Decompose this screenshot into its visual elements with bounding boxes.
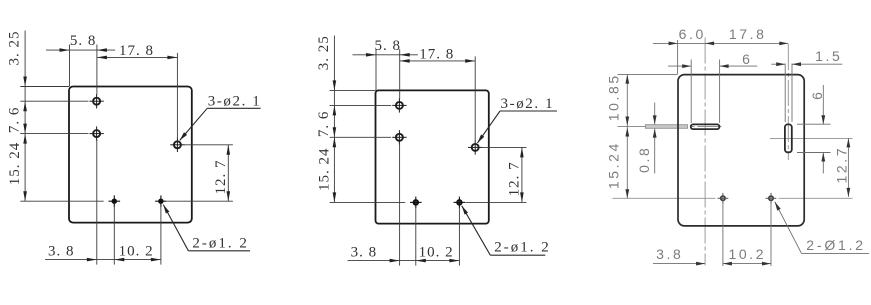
panel 2 (PCB layout bottom view, variant) — [316, 35, 557, 265]
panel2 extension line hole3-column-top — [474, 56, 476, 140]
panel1 extension line dot2-column — [160, 206, 162, 265]
panel2 extension line rect-top-left — [330, 89, 376, 91]
panel1 extension line hole3-row-right — [184, 144, 233, 146]
panel2 left arrows — [333, 80, 337, 90]
svg-text:15. 24: 15. 24 — [7, 142, 23, 186]
panel3 dimension 6 (slot2 height) line — [822, 85, 824, 124]
panel2 hole 1 (coil pin) — [396, 102, 403, 109]
panel3 slot 1 (horizontal pin slot) — [691, 124, 720, 129]
panel1 extension line hole3-column-top — [176, 53, 178, 138]
panel3 dimension 6.0/17.8 line — [653, 42, 788, 44]
panel2 dimension 12.7 line and arrows — [521, 147, 523, 202]
panel3 slot 2 (vertical pin slot) — [785, 124, 792, 152]
panel1 dimension 12.7 line and arrows — [227, 145, 229, 201]
panel3 extension line dot1-column — [722, 203, 724, 266]
panel2 extension line rect-left-top — [375, 49, 377, 90]
svg-text:15.24: 15.24 — [606, 141, 622, 189]
panel2 extension line hole-column-bottom — [399, 143, 401, 265]
svg-text:5. 8: 5. 8 — [375, 38, 402, 54]
panel1 extension line rect-top-left — [20, 86, 69, 88]
panel1 dimension line segment 3.8-to-10.2 — [97, 259, 115, 261]
svg-text:10.2: 10.2 — [728, 246, 766, 262]
svg-text:2-ø1. 2: 2-ø1. 2 — [192, 235, 249, 251]
panel3 extension line dot2-column — [770, 203, 772, 266]
panel1 pad dot 1 — [112, 199, 117, 204]
svg-text:5. 8: 5. 8 — [70, 33, 97, 49]
panel3 body outline — [678, 75, 804, 226]
panel2 extension line hole-column-top — [399, 49, 401, 99]
panel1 extension line hole-column-top — [96, 45, 98, 95]
panel3 extension line slot2-bottom-right — [797, 152, 831, 154]
svg-text:15. 24: 15. 24 — [317, 148, 333, 192]
svg-text:3.8: 3.8 — [656, 246, 683, 262]
panel1 dimension 17.8 line and arrows — [97, 56, 177, 58]
panel2 dimension 10.2 line and arrows — [416, 260, 460, 262]
panel3 extension line slot2-top-right — [797, 123, 831, 125]
panel2 dimension line segment 3.8-to-10.2 — [400, 260, 416, 262]
panel2 extension line hole2-row — [330, 136, 392, 138]
panel3 pad dot 2 — [769, 196, 773, 200]
svg-text:17. 8: 17. 8 — [419, 46, 454, 62]
panel3 extension line slot2-left-edge — [784, 64, 786, 123]
panel3 extension line slot1-right-edge — [719, 60, 721, 123]
svg-text:12. 7: 12. 7 — [506, 161, 522, 196]
panel2 dimension 17.8 line and arrows — [400, 60, 476, 62]
panel1 leader 3-o2.1 — [207, 107, 260, 109]
panel2 extension line hole3-row-right — [482, 146, 527, 148]
panel1 left arrows — [23, 77, 27, 87]
panel3 dimension 12.7 line and arrows — [847, 138, 849, 197]
panel2 dimension 5.8 line and arrows — [353, 54, 400, 56]
panel3 extension line slot2-right-edge — [791, 64, 793, 123]
panel1 extension line hole2-row — [20, 133, 88, 135]
panel2 leader 3-o2.1 — [500, 110, 557, 112]
panel2 extension line dots-row-left — [330, 201, 406, 203]
panel1 hole 1 (coil pin) — [93, 98, 100, 105]
svg-text:3. 25: 3. 25 — [7, 31, 23, 66]
panel3 centerline slot2 horizontal / 12.7 top extension — [770, 137, 853, 139]
svg-text:10. 2: 10. 2 — [119, 244, 154, 260]
svg-text:6.0: 6.0 — [679, 26, 706, 42]
svg-text:12.7: 12.7 — [833, 146, 849, 184]
panel2 hole 2 (coil pin) — [396, 134, 403, 141]
panel1 extension line dots-row-left — [20, 200, 103, 202]
panel1 extension line dot1-column — [113, 206, 115, 265]
panel3 dots-row centerline right — [779, 197, 853, 199]
svg-text:6: 6 — [809, 90, 825, 100]
panel2 leader 2-o1.2 — [490, 254, 545, 256]
panel3 left dimension line 10.85/15.24 — [626, 75, 628, 199]
svg-text:3-ø2. 1: 3-ø2. 1 — [501, 96, 555, 112]
panel3 extension line rect-top-left — [618, 74, 678, 76]
panel3 extension line rect-left-top — [677, 40, 679, 75]
panel1 extension line hole-column-bottom — [96, 140, 98, 265]
panel2 pad dot 1 — [414, 200, 418, 204]
panel2 body outline — [376, 90, 489, 223]
panel2 extension line dot2-column — [458, 207, 460, 266]
panel2 extension line dot1-column — [415, 207, 417, 266]
svg-text:10.85: 10.85 — [606, 73, 622, 121]
svg-text:3. 8: 3. 8 — [351, 245, 378, 261]
svg-text:3. 25: 3. 25 — [316, 35, 332, 70]
panel3 extension line slot1-left-edge — [690, 60, 692, 123]
panel1 extension line rect-left-top — [69, 45, 71, 87]
svg-text:2-Ø1.2: 2-Ø1.2 — [806, 237, 866, 253]
panel3 leader 2-O1.2 — [802, 252, 870, 254]
panel3 dimension 6 (slot width) arrows — [668, 65, 691, 67]
panel3 centerline slot1 vertical — [704, 38, 706, 266]
panel1 extension line dots-row-right — [167, 200, 233, 202]
svg-text:6: 6 — [742, 51, 752, 67]
panel3 dimension 0.8 (pin thickness) — [654, 103, 656, 125]
panel1 dimension 10.2 line and arrows — [114, 259, 161, 261]
panel3 pad dot 1 — [721, 196, 725, 200]
panel3 centerline pin horizontal — [618, 126, 722, 128]
panel3 dimension 3.8 line and arrow — [653, 263, 705, 265]
svg-text:10. 2: 10. 2 — [419, 245, 454, 261]
panel2 extension line hole1-row — [330, 104, 392, 106]
panel2 extension line dots-row-right — [466, 201, 527, 203]
svg-text:1.5: 1.5 — [815, 48, 842, 64]
panel1 leader 2-o1.2 — [188, 250, 250, 252]
panel3 centerline slot2 vertical — [787, 44, 789, 160]
panel2 hole 3 (common pin) — [472, 144, 479, 151]
panel 1 (PCB layout bottom view) — [7, 31, 262, 265]
panel 3 (relay bottom view) — [606, 26, 869, 266]
panel1 dimension 3.8 line and arrow — [45, 259, 97, 261]
panel3 protruding pin (left) — [645, 125, 687, 129]
svg-text:17.8: 17.8 — [729, 26, 767, 42]
svg-text:7. 6: 7. 6 — [316, 111, 332, 137]
panel3 dots-row centerline left — [613, 197, 716, 199]
svg-text:3. 8: 3. 8 — [48, 244, 75, 260]
panel3 dimension 10.2 line and arrows — [723, 263, 771, 265]
svg-text:2-ø1. 2: 2-ø1. 2 — [494, 240, 551, 256]
panel3 dimension 1.5 arrows — [771, 63, 785, 65]
svg-text:3-ø2. 1: 3-ø2. 1 — [208, 94, 262, 110]
panel1 hole 2 (coil pin) — [93, 130, 100, 137]
svg-text:17. 8: 17. 8 — [119, 43, 154, 59]
panel1 left dimension line — [24, 31, 26, 202]
panel1 body outline — [69, 87, 192, 223]
panel2 dimension 3.8 line and arrow — [348, 260, 400, 262]
panel2 left dimension line — [333, 36, 335, 203]
svg-text:0.8: 0.8 — [636, 146, 652, 173]
panel1 hole 3 (common pin) — [174, 141, 181, 148]
panel1 extension line hole1-row — [20, 100, 88, 102]
panel1 dimension 5.8 line and arrows — [46, 49, 97, 51]
svg-text:7. 6: 7. 6 — [7, 107, 23, 133]
panel1 pad dot 2 — [158, 199, 163, 204]
svg-text:12. 7: 12. 7 — [213, 159, 229, 194]
panel2 pad dot 2 — [457, 200, 461, 204]
